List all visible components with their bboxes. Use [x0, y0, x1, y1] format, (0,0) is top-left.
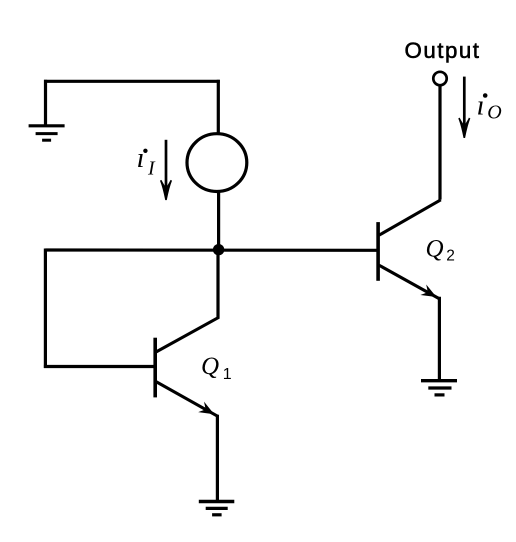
wire Q1 emitter vertical: [216, 415, 219, 502]
arrow i_O: [459, 77, 470, 138]
label Q1: [201, 353, 232, 383]
ground top-left: [29, 126, 65, 140]
svg-text:ı: ı: [137, 142, 145, 174]
node (junction dot): [213, 244, 224, 255]
wire bottom horizontal to Q1 base: [44, 365, 155, 368]
ground under Q2: [421, 381, 457, 395]
arrow i_I: [161, 140, 172, 200]
svg-text:1: 1: [223, 366, 232, 383]
transistor Q1: [155, 317, 219, 416]
wire left lower vertical: [44, 249, 47, 369]
wire Q2 emitter vertical: [438, 297, 441, 381]
label i_O: [477, 90, 502, 124]
wire mid horizontal: [45, 248, 377, 252]
ground under Q1: [199, 502, 235, 515]
transistor Q2: [378, 200, 441, 299]
svg-text:2: 2: [446, 248, 455, 265]
output terminal circle: [433, 72, 446, 85]
svg-text:Q: Q: [426, 235, 444, 262]
wire current source to node: [217, 191, 220, 252]
Q1 emitter arrowhead: [198, 402, 217, 420]
wire Q1 collector vertical: [216, 250, 219, 319]
label Q2: [426, 235, 455, 264]
Q2 emitter arrowhead: [420, 284, 439, 302]
svg-text:Output: Output: [405, 38, 481, 63]
current source I1: [187, 134, 247, 192]
wire vertical into current source: [217, 80, 220, 133]
svg-text:I: I: [147, 158, 156, 180]
svg-text:Q: Q: [201, 353, 219, 380]
wire Q2 collector vertical: [438, 86, 441, 200]
wire top horizontal: [44, 80, 220, 83]
wire left upper vertical: [44, 80, 47, 126]
svg-text:O: O: [487, 101, 501, 123]
label i_I: [137, 142, 157, 180]
